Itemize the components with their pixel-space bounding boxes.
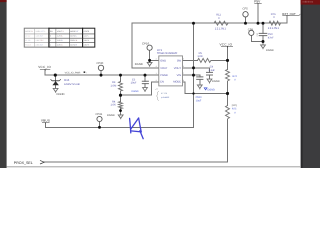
- svg-text:DGND: DGND: [266, 49, 274, 52]
- svg-text:VCC_IO: VCC_IO: [38, 65, 51, 69]
- wire CP9 bend: [251, 36, 263, 42]
- svg-text:P5V: P5V: [254, 0, 261, 3]
- svg-text:VCC_IO_PWR: VCC_IO_PWR: [65, 72, 81, 75]
- svg-text:AUTO L: AUTO L: [70, 35, 76, 38]
- svg-text:2: 2: [156, 57, 157, 60]
- capacitor C50: [259, 33, 268, 35]
- svg-text:DGND: DGND: [57, 93, 65, 96]
- resistor R11: [214, 21, 228, 25]
- diode scribble right edge: [139, 118, 142, 132]
- diode scribble bar: [130, 118, 131, 132]
- table header text: [25, 30, 90, 33]
- svg-text:2.8V H: 2.8V H: [84, 44, 90, 47]
- svg-text:10uF: 10uF: [196, 99, 202, 102]
- ground DGND at C4: [207, 79, 212, 83]
- wire GND pin stub: [150, 59, 159, 61]
- wire C50 stem: [262, 23, 264, 45]
- svg-text:1.0M: 1.0M: [111, 84, 117, 87]
- wire R3 top stem: [120, 75, 122, 81]
- node FB pin: [192, 74, 195, 77]
- svg-text:EXT_OUT: EXT_OUT: [282, 12, 296, 16]
- resistor R5: [198, 58, 211, 62]
- svg-text:CP9: CP9: [248, 28, 254, 31]
- ground DGND at CP16: [147, 62, 152, 66]
- svg-text:redlink text: redlink text: [303, 1, 314, 4]
- wire R4 top stem: [120, 95, 122, 101]
- resistor R3: [119, 82, 123, 91]
- svg-text:0: 0: [50, 35, 51, 38]
- ground DGND at C510: [197, 85, 202, 89]
- wire P5V drop: [257, 3, 259, 23]
- table cell text: [25, 35, 89, 47]
- node R3 top: [119, 74, 122, 77]
- svg-text:R74: R74: [233, 75, 238, 78]
- diode scribble upper diagonal: [131, 118, 139, 129]
- svg-text:p.6.44AF: p.6.44AF: [161, 96, 170, 99]
- ground DGND at C50: [261, 45, 266, 49]
- wire SW node vertical: [193, 23, 195, 127]
- svg-text:VCC_IO: VCC_IO: [220, 43, 233, 47]
- svg-text:CP40: CP40: [97, 62, 104, 65]
- wire VOUT pin to C4: [183, 68, 210, 73]
- node feedback/SW vertical: [192, 92, 194, 94]
- wire C4 to ground: [209, 75, 211, 79]
- bottom frame line: [7, 166, 301, 167]
- svg-text:3: 3: [156, 79, 157, 82]
- node R4 bottom: [119, 109, 122, 112]
- svg-text:1.8V H: 1.8V H: [84, 39, 90, 42]
- node PROX_SEL arrow: [40, 160, 44, 164]
- pin numbers: [156, 57, 184, 81]
- capacitor C4: [206, 72, 213, 75]
- wire FB pin to C510: [183, 75, 200, 77]
- page background: [0, 0, 320, 168]
- wire feedback row: [185, 93, 228, 95]
- diode scribble bottom edge: [131, 131, 141, 132]
- node P5V: [257, 22, 260, 25]
- svg-text:1: 1: [50, 39, 51, 42]
- table column line E thick: [82, 28, 84, 47]
- svg-text:7: 7: [183, 72, 184, 75]
- table row line 3: [24, 42, 95, 44]
- node C50 top: [262, 22, 265, 25]
- svg-text:10uF: 10uF: [131, 82, 137, 85]
- ground DGND at D15: [53, 88, 58, 92]
- node R3/R4: [119, 94, 122, 97]
- svg-text:DGND: DGND: [208, 89, 216, 92]
- wire bus R75 bottom to PROX_SEL row: [44, 120, 227, 163]
- svg-text:47.-R6: 47.-R6: [161, 92, 168, 95]
- resistor R4: [119, 102, 123, 109]
- svg-text:VOUT: VOUT: [160, 67, 168, 70]
- svg-text:1: 1: [50, 44, 51, 47]
- svg-text:EN: EN: [160, 81, 164, 84]
- testpoint CP16: [147, 45, 152, 50]
- svg-text:121JN1: 121JN1: [268, 27, 280, 30]
- svg-text:STATE: STATE: [84, 30, 90, 33]
- node D15: [54, 74, 57, 77]
- wire MODE pin down: [183, 82, 185, 94]
- node C50/CP9: [262, 40, 265, 43]
- left sidebar red top block: [0, 0, 7, 2]
- svg-text:MODE: MODE: [173, 81, 181, 84]
- capacitor C510: [196, 77, 203, 80]
- wire R5 to VCC bus: [211, 59, 228, 61]
- svg-text:DGND: DGND: [107, 114, 115, 117]
- table column line A: [34, 28, 36, 47]
- resistor R74: [226, 69, 230, 81]
- svg-text:SW: SW: [177, 59, 182, 62]
- svg-text:CP5: CP5: [243, 8, 249, 11]
- ground DGND at C5: [143, 88, 148, 92]
- wire R76 out segment: [280, 16, 288, 24]
- svg-text:1: 1: [156, 72, 157, 75]
- svg-text:CP16: CP16: [142, 42, 149, 46]
- table row line 2: [24, 37, 95, 39]
- node CP41: [98, 126, 101, 129]
- svg-text:1.0K: 1.0K: [111, 104, 117, 107]
- wire CP41 stem: [99, 122, 101, 128]
- svg-text:PROX_SEL: PROX_SEL: [14, 161, 33, 165]
- svg-text:PGND: PGND: [160, 74, 168, 77]
- svg-text:DGND: DGND: [212, 80, 220, 83]
- svg-text:4: 4: [156, 65, 157, 68]
- svg-text:AUTO H: AUTO H: [70, 44, 77, 47]
- node feedback/bus: [226, 92, 229, 95]
- right sidebar red top block: [301, 0, 320, 5]
- table column line D: [68, 28, 70, 47]
- testpoint CP41: [97, 116, 102, 121]
- svg-text:VIN: VIN: [177, 74, 181, 77]
- svg-text:MODE ST: MODE ST: [70, 30, 79, 33]
- table row line 1: [24, 33, 95, 35]
- svg-text:DGND: DGND: [135, 63, 143, 66]
- capacitor C5: [142, 81, 149, 83]
- wire EN pin run: [121, 82, 159, 95]
- wire C510 to ground: [199, 79, 201, 85]
- svg-text:DNI: DNI: [256, 33, 259, 37]
- table column line B thick: [48, 28, 50, 47]
- svg-text:VBUS: VBUS: [41, 119, 50, 123]
- resistor R75: [226, 106, 230, 119]
- svg-text:6: 6: [183, 65, 184, 68]
- wire top rail with corner down to IC VIN: [132, 23, 287, 68]
- table outer border: [24, 28, 95, 47]
- table column line C: [55, 28, 57, 47]
- svg-text:1.8V B: 1.8V B: [57, 39, 63, 42]
- wire R4 bottom stem to ground: [120, 108, 122, 115]
- svg-text:1.0K: 1.0K: [197, 55, 203, 58]
- wire CP16 stem: [149, 50, 151, 62]
- node VOUT pin: [192, 66, 195, 69]
- svg-text:c??: c??: [155, 88, 158, 91]
- wire D15 stem: [54, 75, 56, 81]
- wire D15 to ground: [55, 85, 57, 88]
- diode D15 TVS body: [52, 81, 59, 85]
- testpoint CP9: [249, 30, 254, 35]
- table left section lightening: [24, 28, 49, 48]
- node CP16 / GND pin: [148, 59, 151, 62]
- wire CP5 stem: [245, 17, 247, 23]
- svg-text:VOUT: VOUT: [174, 67, 182, 70]
- svg-text:2.1uF: 2.1uF: [209, 69, 216, 72]
- svg-text:R75: R75: [232, 107, 237, 110]
- resistor R76: [269, 21, 280, 25]
- svg-text:8: 8: [183, 79, 184, 82]
- testpoint CP5: [243, 12, 248, 17]
- testpoint CP40: [98, 65, 103, 70]
- node CP40: [100, 74, 103, 77]
- svg-text:C4: C4: [210, 65, 214, 68]
- wire C5 stem: [144, 75, 146, 81]
- wire VCC_IO right port drop: [227, 46, 229, 60]
- wire VCC_IO left rail to IC pin3: [45, 70, 159, 76]
- svg-text:PROX H: PROX H: [70, 39, 78, 42]
- op-amp U71 body: [159, 56, 183, 86]
- node VCC bus / R5: [226, 59, 229, 62]
- diode scribble tail: [140, 131, 143, 139]
- wire bus R74 stems: [227, 60, 229, 105]
- svg-text:DGND: DGND: [132, 90, 139, 93]
- svg-text:ESDV7L5.6B: ESDV7L5.6B: [64, 83, 80, 86]
- svg-text:D15: D15: [64, 79, 69, 82]
- wire CP40 stem: [100, 71, 102, 76]
- svg-text:2.8V C: 2.8V C: [57, 44, 63, 47]
- svg-text:CP41: CP41: [96, 113, 103, 116]
- ground DGND at R4: [118, 115, 123, 119]
- svg-text:1.2V L: 1.2V L: [84, 35, 89, 38]
- node CP5: [244, 22, 247, 25]
- svg-text:↑: ↑: [86, 72, 87, 75]
- svg-text:GND: GND: [160, 59, 166, 62]
- left sidebar: [0, 0, 7, 168]
- svg-text:121JN1: 121JN1: [215, 27, 227, 30]
- node top rail / SW vertical: [192, 22, 195, 25]
- svg-text:TPS61240ADBVR: TPS61240ADBVR: [157, 52, 178, 55]
- node C5: [144, 74, 147, 77]
- wire VBUS rail: [46, 123, 194, 127]
- wire C5 to ground: [144, 84, 146, 88]
- right sidebar: [301, 0, 320, 168]
- svg-text:5: 5: [183, 57, 184, 60]
- svg-text:47nF: 47nF: [268, 37, 274, 40]
- wire R5 row from SW pin: [183, 59, 198, 61]
- svg-text:1.2V A: 1.2V A: [57, 35, 63, 38]
- ground DGND blue at C510: [204, 88, 207, 90]
- wire R3 bottom stem: [120, 91, 122, 95]
- svg-text:VOUT V: VOUT V: [57, 30, 64, 33]
